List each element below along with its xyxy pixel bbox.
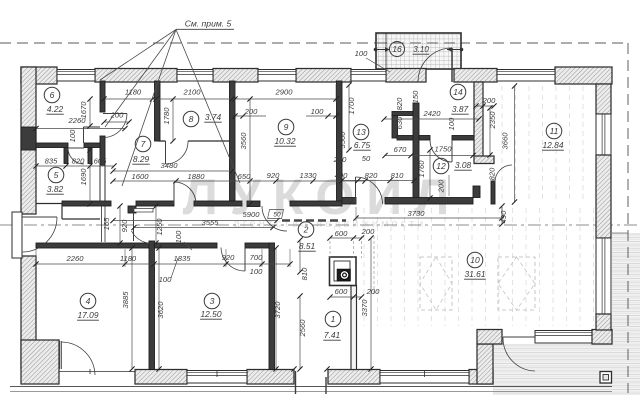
room 3 top wall right stub: [245, 243, 274, 248]
svg-text:16: 16: [392, 44, 402, 54]
svg-text:920: 920: [120, 219, 129, 232]
svg-text:1880: 1880: [188, 172, 206, 181]
dim 3370 room 1: [370, 238, 372, 369]
svg-text:1780: 1780: [162, 107, 171, 125]
room 8 bottom wall: [158, 140, 166, 142]
door closet room 5: [68, 147, 84, 149]
svg-text:3.87: 3.87: [452, 104, 469, 114]
lower-right wall window x535-594: [535, 331, 594, 344]
left wall lower: [21, 256, 36, 369]
svg-text:13: 13: [356, 127, 366, 137]
hall door frame lines: [134, 209, 153, 213]
room 1 label: [325, 311, 341, 327]
svg-text:3620: 3620: [156, 301, 165, 319]
svg-text:8: 8: [189, 114, 194, 124]
terrace decking right: [612, 233, 640, 395]
boiler stove: [330, 257, 357, 286]
svg-text:12.84: 12.84: [543, 140, 564, 150]
svg-text:100: 100: [355, 49, 368, 58]
dashed line across extension: [376, 42, 461, 44]
wc partition stub a: [64, 148, 68, 164]
svg-text:200: 200: [366, 287, 380, 296]
door room 4 sill: [59, 371, 135, 373]
svg-text:400: 400: [335, 171, 348, 180]
svg-text:3660: 3660: [501, 132, 510, 150]
svg-text:3: 3: [210, 296, 215, 306]
room 5 label: [48, 167, 64, 183]
svg-text:3730: 3730: [408, 209, 426, 218]
axis line horizontal: [0, 224, 640, 226]
svg-text:2100: 2100: [183, 88, 202, 97]
room 7 bottom wall right: [290, 201, 342, 206]
dashed boundary line top: [0, 42, 628, 44]
door room 3: [244, 248, 246, 272]
top wall window x57-95: [57, 70, 95, 82]
door hall-room 7: [173, 182, 175, 204]
dim 1760 room 12: [429, 150, 431, 198]
svg-text:5: 5: [54, 170, 59, 180]
svg-text:650: 650: [238, 172, 251, 181]
wall rooms 4-3: [149, 241, 155, 370]
hall wall thin lines: [101, 205, 103, 242]
door extension 16: [451, 48, 453, 82]
svg-text:630: 630: [395, 116, 404, 129]
room 12 label: [433, 158, 449, 174]
svg-text:14: 14: [453, 87, 463, 97]
svg-text:См. прим. 5: См. прим. 5: [185, 19, 232, 29]
dim 2420 room 14: [384, 118, 479, 120]
svg-text:2350: 2350: [488, 111, 497, 130]
dim 670 1750: [385, 155, 473, 157]
svg-text:820: 820: [488, 167, 497, 180]
dim 490 step: [501, 206, 503, 224]
hall door post: [128, 206, 136, 213]
top wall corner pier right: [555, 67, 612, 84]
svg-text:12: 12: [436, 161, 446, 171]
top wall window x497-555: [497, 70, 555, 82]
wall room 11 left lower: [491, 181, 495, 204]
bottom wall pier x135-187: [135, 370, 187, 385]
svg-text:7: 7: [141, 139, 146, 149]
wall rooms 8-9: [230, 81, 236, 203]
top wall pier x95-177: [95, 69, 177, 83]
top wall pier x454-497: [454, 69, 497, 83]
note leaders: [100, 30, 176, 81]
room 7 bottom wall left a: [62, 201, 111, 206]
room 13 closet top: [392, 112, 413, 116]
right wall window1: [596, 114, 611, 155]
svg-text:3555: 3555: [202, 218, 220, 227]
top wall pier x296-351: [296, 69, 351, 83]
entrance door frame bump: [12, 212, 22, 258]
wall jog 12-11: [474, 156, 494, 164]
room 14 bottom wall left: [397, 136, 430, 141]
room 14 bottom wall right: [452, 136, 474, 141]
door room 11: [495, 165, 512, 182]
dim 5900 hall: [113, 220, 277, 222]
svg-text:3.74: 3.74: [205, 112, 222, 122]
dim 1250 line: [155, 206, 157, 243]
svg-text:600: 600: [335, 229, 348, 238]
witness lines stove: [329, 241, 331, 258]
svg-text:31.61: 31.61: [465, 269, 486, 279]
top wall window x177-213: [177, 70, 213, 82]
svg-text:2: 2: [303, 225, 309, 235]
dim 1780 room 8: [172, 99, 174, 141]
dim 3730 room 10: [356, 217, 502, 219]
svg-text:700: 700: [250, 253, 263, 262]
svg-text:670: 670: [394, 145, 407, 154]
room 8 label: [183, 111, 199, 127]
rooms 3-4 top wall: [150, 243, 217, 248]
dim 3885 room 4: [131, 248, 133, 369]
svg-text:12.50: 12.50: [201, 309, 222, 319]
svg-text:1700: 1700: [347, 97, 356, 115]
dim chain room 13 bottom: [342, 180, 414, 182]
room 2 label: [298, 222, 314, 238]
dim 100 room 9 right: [306, 115, 336, 117]
svg-text:3370: 3370: [360, 299, 369, 317]
svg-text:1750: 1750: [435, 145, 453, 154]
wc partition stub b: [88, 148, 92, 164]
right wall seg3: [596, 314, 611, 330]
room 3 label: [204, 293, 220, 309]
svg-text:17.09: 17.09: [78, 310, 99, 320]
door room 14-13: [451, 140, 453, 162]
dim 200 wall 11: [476, 105, 494, 107]
witness lines 3730: [355, 207, 357, 221]
svg-text:50: 50: [273, 212, 281, 219]
room 7 label: [135, 136, 151, 152]
dim 3560 room 9: [249, 99, 251, 204]
svg-text:11: 11: [550, 126, 559, 136]
svg-text:100: 100: [68, 129, 77, 142]
room 6 label: [44, 87, 60, 103]
dashed partition hall: [282, 219, 346, 222]
svg-text:1: 1: [331, 314, 336, 324]
svg-text:1690: 1690: [79, 168, 88, 186]
svg-text:3.10: 3.10: [413, 45, 429, 54]
svg-text:1600: 1600: [132, 172, 150, 181]
door room 10 terrace: [503, 336, 535, 338]
niche wall c: [62, 218, 100, 220]
extension markers: [374, 48, 378, 52]
terrace edge lines: [10, 386, 612, 388]
svg-text:2420: 2420: [423, 109, 442, 118]
dim 3660 room 11: [514, 86, 516, 202]
lower-right wall pier x477-502: [477, 330, 502, 345]
dim 810 vert: [299, 240, 301, 272]
door hall-room 4: [133, 206, 135, 241]
svg-text:200: 200: [482, 96, 496, 105]
room 16 label: [390, 42, 405, 57]
svg-text:150: 150: [411, 90, 420, 103]
svg-text:8.51: 8.51: [299, 241, 315, 251]
dashed boundary line right: [627, 43, 629, 393]
svg-text:820: 820: [365, 171, 378, 180]
svg-text:200: 200: [361, 227, 375, 236]
svg-text:490: 490: [499, 210, 508, 223]
svg-text:1250: 1250: [155, 218, 164, 236]
svg-text:4: 4: [86, 296, 91, 306]
top wall pier x386-426: [386, 69, 426, 83]
svg-text:165: 165: [102, 217, 111, 230]
svg-text:100: 100: [174, 230, 183, 243]
room 13 label: [353, 124, 369, 140]
room 9 label: [278, 119, 294, 135]
dim 2260 room 6: [36, 128, 125, 130]
svg-text:8.29: 8.29: [133, 154, 150, 164]
skylight diamond 2: [498, 257, 535, 310]
door room 4 to terrace: [59, 341, 61, 369]
skylight diamond 1: [420, 257, 452, 310]
svg-text:3560: 3560: [239, 132, 248, 150]
svg-text:920: 920: [222, 253, 235, 262]
bottom wall window x380-469: [380, 371, 469, 384]
top wall corner pier left: [21, 67, 57, 84]
room 8 bottom wall right part: [188, 140, 232, 142]
svg-text:9: 9: [284, 122, 289, 132]
extension inner edge line: [385, 33, 387, 69]
dim 1670 vert: [89, 99, 91, 126]
extension room 16 grid: [376, 33, 461, 69]
svg-text:3.08: 3.08: [455, 160, 472, 170]
bottom wall pier x247-294: [247, 370, 294, 385]
dim 3555 hall2: [134, 227, 273, 229]
svg-text:3560: 3560: [338, 131, 347, 149]
svg-text:200: 200: [333, 155, 347, 164]
terrace post: [600, 372, 612, 384]
room 8 left wall: [155, 81, 161, 141]
dim 200 room 9 left: [235, 115, 266, 117]
svg-text:820: 820: [72, 157, 85, 166]
dim 2560 room 1: [299, 296, 301, 369]
svg-text:6.75: 6.75: [354, 140, 371, 150]
svg-text:810: 810: [300, 267, 309, 280]
dim 3620 room 3: [158, 248, 160, 369]
right wall seg1: [596, 84, 611, 114]
room 11 label: [546, 123, 562, 139]
door room 1 outside: [295, 371, 297, 394]
wall between rooms 6 and 5 b: [84, 143, 100, 148]
bottom wall pier x328-380: [328, 370, 380, 385]
dim 1700 vert room13: [348, 85, 350, 150]
niche wall a: [36, 203, 62, 205]
room 6 closet lines: [83, 127, 85, 143]
svg-text:100: 100: [311, 107, 324, 116]
room 12 wall stub: [473, 186, 480, 198]
right wall window2: [596, 238, 611, 314]
niche wall b: [61, 204, 63, 220]
dim stove bottom: [330, 296, 362, 298]
dim 200 room 8 left: [104, 121, 129, 123]
svg-text:2560: 2560: [298, 319, 307, 338]
svg-text:2900: 2900: [275, 88, 294, 97]
dim chain top rooms: [104, 98, 336, 100]
dim 1690 room 5: [89, 150, 91, 204]
dim stove top: [330, 237, 362, 239]
left wall pier block: [21, 127, 36, 150]
svg-text:835: 835: [45, 157, 58, 166]
svg-text:2260: 2260: [66, 254, 85, 263]
svg-text:4.22: 4.22: [47, 104, 64, 114]
svg-text:1180: 1180: [125, 88, 142, 97]
wall rooms 9-13: [337, 81, 343, 203]
svg-text:810: 810: [391, 171, 404, 180]
wall between rooms 6 and 5 a: [36, 143, 68, 148]
svg-text:3885: 3885: [121, 291, 130, 309]
dim chain wc: [36, 165, 114, 167]
room 7 bottom wall mid: [194, 201, 242, 206]
wall rooms 6-5 right side upper: [100, 81, 105, 112]
wall rooms 14-11 (hatched): [474, 82, 483, 157]
room 4 label: [80, 293, 96, 309]
lower-right corner pier: [592, 330, 612, 345]
svg-text:920: 920: [267, 171, 280, 180]
right wall seg2: [596, 155, 611, 238]
svg-text:820: 820: [395, 97, 404, 110]
svg-text:1180: 1180: [120, 254, 137, 263]
svg-text:10.32: 10.32: [275, 136, 296, 146]
entrance door room 2: [22, 216, 57, 218]
room 1 right wall: [351, 286, 357, 370]
wall rooms 13-12: [413, 103, 419, 198]
dim 3720 room 3 right: [275, 248, 277, 369]
svg-text:605: 605: [94, 157, 107, 166]
dim chain rooms 4-3: [36, 263, 290, 265]
door room 6: [103, 113, 127, 115]
svg-text:5900: 5900: [243, 210, 261, 219]
svg-text:1760: 1760: [417, 160, 426, 178]
witness 200 room 12: [448, 175, 450, 196]
left wall corner block: [21, 340, 59, 384]
wall rooms 6-5 right side mid: [100, 136, 105, 165]
svg-text:1330: 1330: [300, 171, 318, 180]
door room 8: [165, 141, 167, 164]
terrace decking bottom: [493, 384, 640, 395]
step wall vertical: [477, 344, 493, 384]
svg-text:600: 600: [335, 287, 348, 296]
svg-text:1835: 1835: [174, 254, 192, 263]
svg-text:3720: 3720: [273, 301, 282, 319]
wall rooms 6-5 right side lowest: [100, 165, 105, 203]
svg-text:100: 100: [159, 275, 172, 284]
bottom wall stub x469-493: [469, 370, 493, 385]
wall below room 12: [385, 198, 473, 205]
door room 9: [247, 201, 260, 207]
svg-text:3480: 3480: [161, 161, 179, 170]
svg-text:10: 10: [470, 255, 480, 265]
svg-text:1670: 1670: [79, 101, 88, 119]
room 10 label: [467, 252, 483, 268]
dim chain room 7 bottom: [113, 180, 365, 182]
room 7 bottom wall left b: [136, 201, 174, 206]
room 14 label: [450, 84, 466, 100]
svg-text:200: 200: [244, 107, 258, 116]
svg-text:3.82: 3.82: [47, 184, 64, 194]
door room 13: [355, 177, 357, 204]
witness lines top chain: [103, 84, 105, 102]
svg-text:100: 100: [250, 267, 263, 276]
room 13 slot wall: [392, 112, 398, 138]
top wall pier x213-258: [213, 69, 258, 83]
room 4 top wall: [36, 243, 149, 248]
svg-text:200: 200: [437, 179, 446, 193]
dim 920 door line: [119, 206, 121, 243]
witness lines bottom chain: [35, 249, 37, 267]
top wall window x351-386: [351, 70, 386, 82]
left wall upper: [21, 67, 36, 214]
terrace decking corner: [493, 344, 612, 384]
dim 2350 wall 11: [489, 108, 491, 155]
svg-text:6: 6: [50, 90, 55, 100]
room 3 right wall: [269, 243, 275, 370]
top wall window x258-296: [258, 70, 296, 82]
floor joint lines rooms 10-11: [363, 208, 365, 326]
bottom wall window x187-247: [187, 371, 247, 384]
svg-text:50: 50: [362, 154, 371, 163]
svg-text:7.41: 7.41: [324, 330, 340, 340]
wall below room 13: [342, 198, 356, 205]
